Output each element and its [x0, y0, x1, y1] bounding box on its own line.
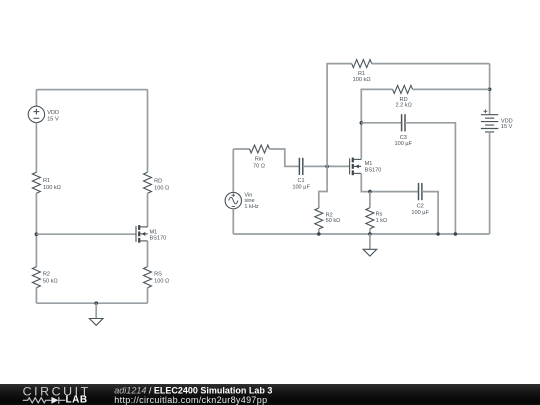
- svg-text:RD: RD: [154, 178, 162, 184]
- wire: C2 right down to bottom rail: [422, 192, 438, 234]
- wire: Vin top lead: [232, 149, 234, 192]
- node: C2 branch bottom dot: [436, 232, 440, 236]
- svg-text:15 V: 15 V: [501, 124, 513, 130]
- svg-text:R1: R1: [43, 178, 50, 184]
- node: RD-battery junction dot: [488, 88, 492, 92]
- logo resistor-diode motif: [23, 397, 66, 404]
- svg-text:M1: M1: [150, 229, 158, 235]
- node: C3 node dot: [360, 121, 364, 125]
- capacitor C3 100 &#181;F: [402, 114, 405, 131]
- node: R2 bottom dot: [317, 232, 321, 236]
- wire: RD to battery branch: [413, 88, 490, 90]
- wire: gate node up to R1: [327, 64, 352, 167]
- wire: left circuit bottom rail: [36, 302, 147, 304]
- wire: VDD source top lead: [35, 90, 37, 107]
- wire: drain node to C3: [361, 122, 401, 124]
- node: ground junction dot: [94, 301, 98, 305]
- wire: battery top branch: [489, 64, 491, 115]
- svg-text:adi1214 / ELEC2400 Simulation: adi1214 / ELEC2400 Simulation Lab 3: [114, 385, 272, 395]
- wire: RD to M1 drain: [147, 193, 149, 227]
- wire: Vin to Rin: [233, 148, 249, 150]
- svg-text:R1: R1: [358, 71, 365, 77]
- svg-text:LAB: LAB: [66, 395, 88, 405]
- wire: C3 right down to bottom rail: [405, 123, 455, 234]
- resistor R2 50 k&#937;: [32, 267, 40, 288]
- svg-text:50 kΩ: 50 kΩ: [326, 218, 341, 224]
- svg-text:Rs: Rs: [376, 211, 383, 217]
- wire: R1 to R2: [35, 193, 37, 266]
- node: gate junction dot: [35, 232, 39, 236]
- resistor Rs 1 k&#937;: [366, 208, 374, 229]
- wire: Rin to C1: [270, 149, 300, 166]
- svg-text:1 kHz: 1 kHz: [244, 204, 259, 210]
- wire: source node to Rs: [369, 192, 371, 208]
- resistor R1 100 k&#937;: [32, 172, 40, 193]
- svg-text:100 kΩ: 100 kΩ: [43, 185, 61, 191]
- capacitor C2 100 &#181;F: [419, 183, 422, 200]
- node: source node dot: [368, 190, 372, 194]
- svg-text:C2: C2: [417, 203, 424, 209]
- wire: R2 to bottom rail: [318, 229, 320, 234]
- wire: gate wire to M1: [36, 233, 136, 235]
- svg-text:Rin: Rin: [255, 157, 263, 163]
- resistor RD 2.2 k&#937; (right): [393, 85, 413, 93]
- svg-text:2.2 kΩ: 2.2 kΩ: [395, 103, 411, 109]
- resistor RS 100 &#937;: [144, 267, 152, 288]
- wire: left circuit top rail: [36, 89, 147, 91]
- transistor M1 BS170 (left): [136, 225, 148, 243]
- svg-text:BS170: BS170: [150, 235, 167, 241]
- svg-text:100 Ω: 100 Ω: [154, 185, 169, 191]
- resistor R1 100 k&#937; (right): [352, 60, 372, 68]
- footer black bar: [0, 384, 540, 405]
- svg-text:1 kΩ: 1 kΩ: [376, 218, 388, 224]
- capacitor C1 100 &#181;F: [299, 158, 302, 175]
- svg-text:15 V: 15 V: [47, 117, 59, 123]
- wire: right circuit bottom rail: [233, 233, 489, 235]
- wire: R1 to battery branch: [372, 63, 490, 65]
- resistor Rin 70 &#937;: [250, 145, 270, 153]
- svg-text:M1: M1: [365, 161, 373, 167]
- svg-text:R2: R2: [43, 271, 50, 277]
- battery VDD 15 V: [481, 109, 498, 132]
- node: gate node dot: [325, 165, 329, 169]
- svg-text:70 Ω: 70 Ω: [253, 163, 265, 169]
- wire: M1 source rail to C2: [361, 173, 418, 191]
- voltage source VDD 15 V: [28, 106, 44, 122]
- wire: battery bottom to rail: [489, 132, 491, 234]
- wire: gate node down to R2: [319, 166, 327, 208]
- wire: VDD to R1: [35, 123, 37, 173]
- svg-text:BS170: BS170: [365, 168, 382, 174]
- transistor M1 BS170 (right): [350, 158, 362, 176]
- wire: top rail to RD: [147, 90, 149, 173]
- svg-text:C1: C1: [298, 178, 305, 184]
- wire: RS to bottom rail: [147, 288, 149, 304]
- wire: Rs to bottom rail: [369, 229, 371, 234]
- wire: Vin bottom lead: [232, 209, 234, 234]
- svg-text:100 kΩ: 100 kΩ: [353, 77, 371, 83]
- svg-text:100 µF: 100 µF: [395, 141, 413, 147]
- resistor R2 50 k&#937; (right): [315, 208, 323, 229]
- svg-text:100 Ω: 100 Ω: [154, 279, 169, 285]
- wire: R2 to bottom rail: [35, 288, 37, 304]
- wire: RD left corner down to M1 drain: [361, 89, 392, 159]
- wire: C1 to M1 gate: [303, 165, 350, 167]
- svg-text:http://circuitlab.com/ckn2ur8y: http://circuitlab.com/ckn2ur8y497pp: [114, 395, 267, 405]
- svg-text:100 µF: 100 µF: [411, 210, 429, 216]
- node: C3 branch bottom dot: [454, 232, 458, 236]
- node: Rs bottom / ground dot: [368, 232, 372, 236]
- svg-text:RS: RS: [154, 271, 162, 277]
- resistor RD 100 &#937;: [144, 172, 152, 193]
- logo diode: [51, 397, 58, 404]
- svg-text:50 kΩ: 50 kΩ: [43, 279, 58, 285]
- ground (right circuit): [363, 234, 377, 256]
- wire: M1 source to RS: [147, 241, 149, 267]
- voltage source Vin sine 1 kHz: [225, 192, 241, 208]
- svg-text:100 µF: 100 µF: [292, 184, 310, 190]
- svg-text:VDD: VDD: [47, 110, 59, 116]
- ground (left circuit): [89, 303, 103, 325]
